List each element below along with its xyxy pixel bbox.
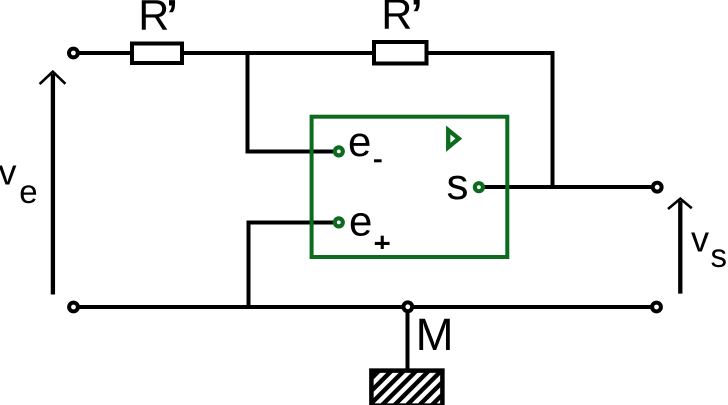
svg-text:R: R — [381, 0, 412, 39]
pin s circle — [475, 183, 483, 191]
terminal T1 (top left) — [69, 49, 78, 58]
svg-text:e: e — [19, 173, 37, 210]
wire: bottom rail — [79, 305, 651, 309]
node M circle — [403, 302, 412, 311]
terminal T3 (output right) — [653, 183, 662, 192]
wire: branch from top wire down to e- — [246, 51, 250, 154]
terminal T2 (bottom left) — [69, 303, 78, 312]
svg-text:v: v — [0, 152, 17, 193]
wire: branch from bottom wire up to e+ — [247, 221, 251, 310]
svg-text:’: ’ — [166, 0, 178, 39]
wire: between resistor R'1 and resistor R'2 — [184, 51, 374, 55]
op-amp U1 green box — [312, 117, 508, 257]
wire: ground stem from M — [406, 311, 410, 370]
svg-text:M: M — [416, 309, 454, 360]
svg-text:’: ’ — [411, 0, 423, 39]
terminal T4 (bottom right) — [652, 303, 661, 312]
arrow v_s head — [668, 199, 692, 209]
wire: output s to right terminal — [484, 185, 651, 189]
wire: horizontal into e- pin — [246, 150, 334, 154]
pin e- circle — [335, 147, 343, 155]
svg-text:e: e — [349, 198, 372, 245]
arrow v_s shaft — [678, 201, 682, 294]
wire: top wire from left terminal to resistor R'1 — [79, 51, 132, 55]
wire: horizontal into e+ pin — [247, 221, 334, 225]
svg-text:R: R — [138, 0, 169, 39]
wire: right vertical feedback drop — [551, 51, 555, 189]
ground symbol (hatched earth) — [371, 371, 442, 405]
op-amp triangle symbol — [448, 130, 459, 147]
svg-text:v: v — [691, 218, 709, 259]
svg-text:s: s — [711, 237, 728, 274]
resistor R'2 — [374, 42, 427, 64]
arrow v_e shaft — [51, 74, 55, 295]
resistor R'1 — [132, 44, 182, 64]
svg-text:e: e — [348, 118, 371, 165]
wire: from resistor R'2 to top-right corner — [427, 51, 555, 55]
svg-text:s: s — [447, 160, 469, 209]
pin e+ circle — [335, 218, 343, 226]
arrow v_e head — [40, 72, 66, 84]
